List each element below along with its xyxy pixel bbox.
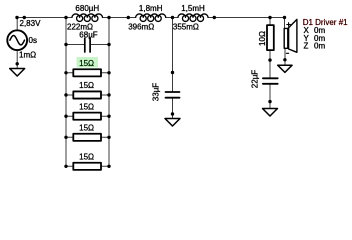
source V1 — [7, 30, 27, 50]
svg-text:0s: 0s — [29, 36, 37, 45]
svg-text:Z: Z — [304, 42, 309, 51]
speaker plus — [287, 23, 291, 27]
resistor R2 15Ω — [73, 91, 101, 98]
svg-text:15Ω: 15Ω — [79, 102, 94, 111]
wire right branch — [269, 18, 271, 109]
capacitor C1 68µF — [85, 38, 90, 52]
wire top net — [17, 17, 285, 19]
svg-text:0m: 0m — [314, 42, 325, 51]
svg-text:68µF: 68µF — [79, 30, 98, 39]
svg-text:15Ω: 15Ω — [79, 153, 94, 162]
resistor R3 15Ω — [73, 113, 101, 120]
inductor L2 1,8mH — [136, 14, 166, 17]
svg-text:1,8mH: 1,8mH — [139, 4, 163, 13]
svg-text:15Ω: 15Ω — [79, 124, 94, 133]
wire ladder rungs — [66, 73, 109, 167]
inductor L1 680µH — [72, 14, 102, 17]
ground G3 — [263, 109, 278, 117]
svg-text:22µF: 22µF — [251, 70, 260, 89]
capacitor C3 22µF — [263, 78, 278, 84]
R1 highlight — [77, 57, 99, 68]
svg-text:33µF: 33µF — [152, 83, 161, 102]
svg-text:10Ω: 10Ω — [258, 31, 267, 46]
speaker D1 — [284, 19, 297, 52]
wire right rail — [108, 18, 110, 167]
svg-text:396mΩ: 396mΩ — [128, 23, 154, 32]
resistor R4 15Ω — [73, 134, 101, 141]
svg-text:D1 Driver #1: D1 Driver #1 — [303, 18, 348, 27]
wire speaker branch — [284, 18, 287, 66]
resistor R1 15Ω — [73, 69, 101, 76]
svg-text:1mΩ: 1mΩ — [19, 51, 36, 60]
capacitor C2 33µF — [166, 92, 180, 98]
resistor R5 15Ω — [73, 163, 101, 170]
svg-text:15Ω: 15Ω — [79, 81, 94, 90]
wire left rail — [65, 18, 67, 167]
ground G2 — [165, 119, 180, 127]
speaker minus — [286, 52, 288, 54]
ground G1 — [10, 69, 25, 77]
svg-text:680µH: 680µH — [75, 4, 99, 13]
wire mid branch — [172, 18, 174, 119]
resistor R6 10Ω — [267, 25, 274, 50]
wire C1 leads — [66, 44, 109, 46]
svg-text:15Ω: 15Ω — [79, 59, 94, 68]
ground G4 — [278, 65, 292, 72]
wire source leads — [16, 18, 18, 69]
svg-text:2,83V: 2,83V — [20, 19, 42, 28]
svg-text:1,5mH: 1,5mH — [181, 4, 205, 13]
inductor L3 1,5mH — [178, 14, 208, 17]
svg-text:355mΩ: 355mΩ — [173, 23, 199, 32]
